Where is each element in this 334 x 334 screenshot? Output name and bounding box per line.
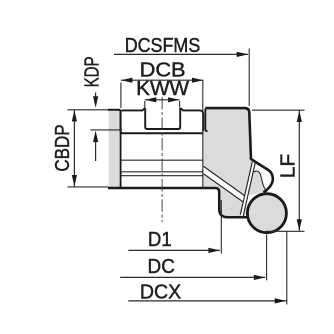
- bore right wall line: [202, 81, 204, 189]
- counterbore interior band lines: [122, 160, 204, 172]
- cutter body right portion (sectioned): [203, 108, 272, 217]
- ring inner wall at relief groove: [205, 109, 207, 132]
- body outline: left rim top face: [108, 110, 203, 134]
- counterbore interior lower line: [122, 175, 204, 177]
- svg-text:D1: D1: [148, 229, 172, 251]
- body bottom face and step: [108, 188, 247, 217]
- left bore wall: [120, 110, 122, 188]
- boss top face right of keyway: [180, 108, 203, 132]
- chip gash (white notch above seat): [253, 163, 273, 192]
- svg-text:KWW: KWW: [136, 78, 189, 100]
- cutter body left rim wall (sectioned): [109, 110, 121, 188]
- svg-text:DCSFMS: DCSFMS: [125, 35, 201, 57]
- svg-text:DC: DC: [148, 256, 175, 278]
- insert seat gap (white steep strip): [240, 162, 255, 216]
- svg-text:DCX: DCX: [140, 281, 181, 303]
- insert seat steep edge lines: [240, 162, 255, 216]
- gash surface edge S-curve: [254, 171, 267, 191]
- keyway slot: [145, 108, 180, 129]
- round insert: [247, 194, 286, 233]
- centerline: [161, 97, 163, 222]
- boss top face left of keyway: [122, 108, 146, 110]
- svg-text:LF: LF: [278, 154, 300, 179]
- svg-text:KDP: KDP: [82, 56, 104, 87]
- svg-text:CBDP: CBDP: [52, 124, 74, 171]
- ring contact top face and right edge: [205, 108, 272, 192]
- clamp screw slot (white band): [203, 166, 245, 202]
